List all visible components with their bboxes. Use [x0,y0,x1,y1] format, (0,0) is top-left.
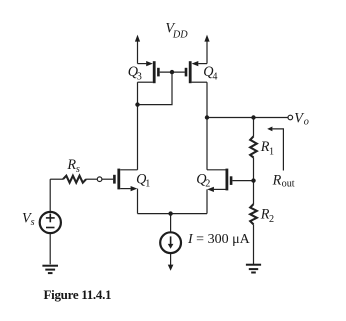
svg-text:1: 1 [269,147,274,158]
svg-text:s: s [31,217,35,228]
svg-text:R: R [66,157,76,173]
svg-text:R: R [272,172,282,188]
svg-text:I = 300 μA: I = 300 μA [187,232,251,247]
svg-text:3: 3 [137,71,142,82]
svg-text:4: 4 [212,71,217,82]
svg-text:out: out [282,178,295,189]
svg-text:2: 2 [269,214,274,225]
svg-text:1: 1 [145,179,150,190]
svg-text:DD: DD [172,30,188,41]
svg-text:2: 2 [205,179,210,190]
svg-text:o: o [304,117,309,128]
svg-text:Figure 11.4.1: Figure 11.4.1 [44,287,112,302]
svg-text:s: s [76,164,80,175]
